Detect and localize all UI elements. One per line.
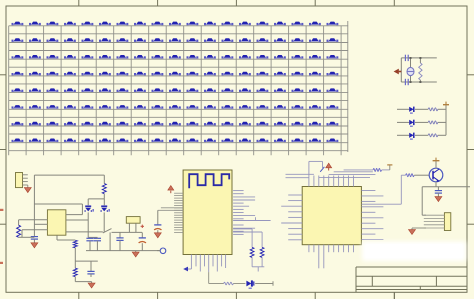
U2 right pin wires — [66, 215, 103, 232]
title block — [356, 267, 467, 299]
LED matrix grid wires — [9, 21, 348, 155]
junction slash — [320, 167, 324, 172]
plus mark C3 — [141, 225, 144, 228]
wire box top — [34, 204, 82, 215]
connector P2 pins — [424, 215, 445, 228]
wire to P2 — [422, 187, 426, 216]
junction dots Y1 — [410, 57, 422, 83]
capacitor C? top bars — [405, 55, 408, 61]
wire D2 down — [103, 212, 105, 232]
white note area — [362, 242, 466, 262]
U3 bottom pins — [309, 245, 354, 269]
VCC arrow U3 — [326, 163, 332, 170]
wire row 3 — [397, 134, 446, 136]
LED matrix row 1 LEDs — [12, 22, 339, 26]
ground arrow bottom left — [88, 283, 95, 288]
IC U2 — [47, 210, 66, 235]
U3 top pins — [309, 176, 354, 187]
capacitor C7 — [435, 187, 442, 197]
VCC arrow U1 — [168, 186, 174, 194]
ground arrow P1 — [24, 185, 31, 193]
LED matrix row 6 LEDs — [12, 105, 339, 109]
U1 bottom pins — [191, 255, 225, 273]
U3 left pins — [281, 195, 302, 240]
VCC bar — [443, 102, 449, 105]
LED matrix row 7 LEDs — [12, 122, 339, 126]
wire R2 bottom — [19, 236, 35, 238]
LED matrix row 8 LEDs — [12, 139, 339, 143]
VCC bus vertical — [445, 105, 447, 135]
LED D4 — [246, 280, 253, 288]
U3 step wire — [309, 161, 323, 175]
ground arrow mid — [132, 251, 139, 257]
port O1 wire — [157, 250, 160, 252]
resistor R? in loop — [419, 58, 422, 82]
capacitor C3 — [139, 232, 146, 250]
resistor R8 — [344, 168, 390, 171]
ground arrow C7 — [435, 197, 442, 202]
connector P2 — [444, 213, 450, 231]
emitter rail — [422, 182, 470, 187]
LED matrix row 2 LEDs — [12, 38, 339, 42]
wire R5R6 bottom — [252, 257, 264, 271]
U1 right pins — [233, 191, 255, 235]
connector P1 pins — [23, 175, 28, 185]
wire diode rail — [88, 199, 104, 205]
capacitor C6 — [154, 210, 161, 233]
U1 long right wire — [233, 217, 271, 220]
connector P1 — [16, 173, 23, 188]
U1 left pins — [174, 193, 183, 232]
MCU U3 — [302, 187, 361, 245]
ground arrow C1 — [31, 243, 38, 248]
resistor R7 — [224, 282, 234, 285]
wire to R6 — [233, 232, 262, 247]
module U1 — [183, 170, 232, 255]
capacitor C? bottom bars — [405, 79, 408, 85]
capacitor C2 — [116, 232, 123, 250]
wire switch rail — [112, 231, 143, 233]
cropped power mark left 2 — [0, 262, 3, 264]
wire to R5 — [233, 229, 252, 248]
wire cap bottom rail — [86, 232, 160, 250]
wire base net — [361, 175, 401, 204]
VCC bar Q1 — [433, 158, 440, 169]
LED matrix row 3 LEDs — [12, 55, 339, 59]
wire U1 serial — [209, 272, 273, 286]
LED matrix row 5 LEDs — [12, 88, 339, 92]
U3 left rails — [286, 174, 314, 177]
LED D1 — [85, 206, 94, 212]
wire D1 down — [87, 212, 89, 237]
wire row 1 — [397, 108, 446, 110]
switch S2 — [103, 229, 112, 233]
resistor R5 — [428, 108, 438, 111]
resistor R9 — [401, 174, 429, 177]
LED D7 — [409, 133, 414, 140]
U1 left long pins — [158, 208, 183, 211]
wire VCC rail — [34, 175, 104, 237]
resistor R6 — [260, 247, 264, 257]
resistor R6 — [428, 121, 438, 124]
LED D6 — [409, 120, 414, 127]
capacitor C4 — [86, 237, 101, 250]
resistor R7 — [428, 134, 438, 137]
crystal Y1 — [407, 58, 415, 82]
LED D2 — [101, 206, 110, 212]
wire U2 bottom — [57, 235, 75, 240]
capacitor C1 — [31, 237, 38, 243]
wire gnd rail — [75, 277, 91, 283]
net arrow left — [183, 267, 191, 272]
transistor Q1 — [429, 168, 443, 182]
capacitor C5 — [87, 261, 94, 277]
button S1 — [126, 217, 140, 224]
U3 right pins — [361, 191, 383, 240]
port O1 — [160, 248, 166, 254]
LED matrix row 4 LEDs — [12, 72, 339, 76]
cropped power mark left 1 — [0, 209, 3, 211]
resistor R1 — [102, 175, 106, 199]
resistor R2 — [17, 225, 21, 237]
resistor R5 — [250, 247, 254, 257]
antenna meander — [189, 174, 229, 188]
resistor R3 — [73, 240, 77, 248]
button legs — [129, 223, 136, 232]
ground arrow P2 — [409, 228, 427, 235]
U2 left pin wires — [19, 220, 48, 238]
port arrow left — [394, 69, 402, 75]
wire row 2 — [397, 121, 446, 123]
ground arrow C6 — [154, 233, 161, 238]
resistor R4 — [73, 268, 77, 277]
U3 top rails — [319, 172, 376, 178]
oscillator loop wires — [401, 58, 437, 82]
stub bar — [387, 165, 392, 170]
wire R3-R4 — [75, 248, 98, 268]
LED D5 — [409, 107, 414, 114]
